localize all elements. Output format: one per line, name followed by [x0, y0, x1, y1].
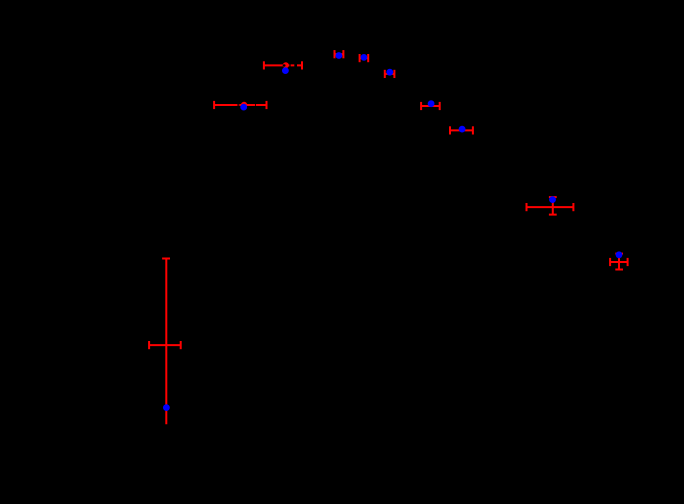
data point P7 error bar and marker: [450, 126, 473, 135]
data point P10 x/y error bars and marker: [149, 259, 181, 425]
data point P2 error bar and markers: [214, 101, 266, 111]
data point P3 error bar and marker: [335, 50, 344, 59]
data point P4 error bar and marker: [360, 54, 369, 62]
data point P5 error bar and marker: [385, 69, 395, 78]
data point P1 error bar and markers: [264, 61, 302, 74]
data point P9 x/y error bars and marker: [610, 251, 628, 269]
data point P6 error bar and marker: [421, 100, 440, 110]
data point P8 x/y error bars and marker: [527, 196, 574, 214]
